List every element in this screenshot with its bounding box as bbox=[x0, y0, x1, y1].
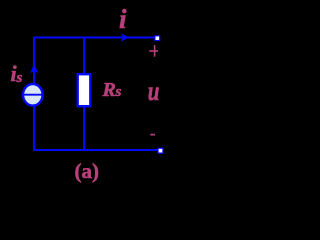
terminal bottom-right bbox=[158, 148, 163, 153]
current source chord bbox=[22, 94, 44, 96]
svg-text:u: u bbox=[148, 77, 160, 107]
label u (voltage) bbox=[148, 77, 160, 107]
svg-text:i: i bbox=[119, 4, 127, 34]
wire left vertical upper bbox=[33, 37, 35, 84]
svg-text:(a): (a) bbox=[75, 159, 100, 183]
current source U1 circle bbox=[23, 84, 43, 106]
current source arrow head bbox=[30, 63, 38, 73]
wire bottom horizontal bbox=[33, 149, 158, 151]
wire resistor branch lower bbox=[83, 107, 85, 152]
svg-text:R: R bbox=[102, 79, 116, 101]
minus sign bbox=[150, 134, 155, 136]
svg-text:s: s bbox=[115, 84, 122, 100]
label i (current) bbox=[119, 4, 127, 34]
plus sign bbox=[149, 45, 158, 57]
svg-text:s: s bbox=[16, 70, 23, 86]
wire resistor branch upper bbox=[83, 37, 85, 75]
wire top horizontal bbox=[33, 37, 155, 39]
label Rs (resistance) bbox=[102, 79, 122, 101]
label is (source current) bbox=[11, 61, 23, 86]
wire left vertical lower bbox=[33, 107, 35, 152]
current arrow i on top wire bbox=[121, 33, 130, 41]
caption (a) bbox=[75, 159, 100, 183]
resistor Rs body bbox=[78, 74, 91, 106]
terminal top-right bbox=[155, 36, 160, 41]
